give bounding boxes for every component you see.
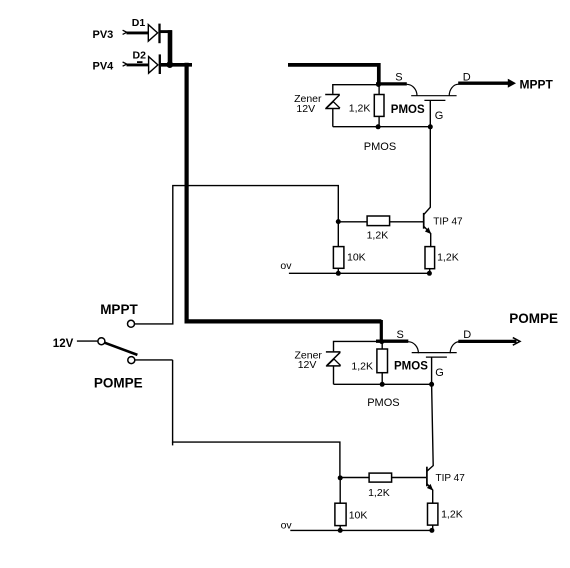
svg-text:1,2K: 1,2K <box>351 361 373 373</box>
svg-text:MPPT: MPPT <box>100 302 138 317</box>
svg-text:PMOS: PMOS <box>367 397 399 409</box>
svg-text:S: S <box>395 71 402 83</box>
svg-text:D: D <box>463 72 471 84</box>
svg-text:PMOS: PMOS <box>394 361 428 373</box>
svg-text:10K: 10K <box>349 510 368 522</box>
svg-text:PV4: PV4 <box>93 61 115 73</box>
svg-text:1,2K: 1,2K <box>437 252 459 264</box>
svg-text:POMPE: POMPE <box>509 311 558 326</box>
svg-text:12V: 12V <box>296 103 315 115</box>
svg-text:1,2K: 1,2K <box>441 508 463 520</box>
svg-text:G: G <box>435 367 444 379</box>
svg-text:D: D <box>463 329 471 341</box>
svg-text:TIP 47: TIP 47 <box>433 216 463 227</box>
svg-text:ov: ov <box>281 520 293 532</box>
svg-text:POMPE: POMPE <box>94 375 143 390</box>
svg-text:10K: 10K <box>347 251 366 263</box>
svg-text:ov: ov <box>280 260 292 272</box>
svg-text:D2: D2 <box>133 49 147 61</box>
svg-text:PMOS: PMOS <box>364 141 396 153</box>
svg-text:G: G <box>435 110 444 122</box>
svg-text:1,2K: 1,2K <box>367 229 389 241</box>
svg-text:12V: 12V <box>298 359 317 371</box>
svg-text:D1: D1 <box>132 17 146 29</box>
svg-text:12V: 12V <box>53 338 74 350</box>
svg-text:1,2K: 1,2K <box>349 103 371 115</box>
svg-text:S: S <box>397 329 404 341</box>
svg-text:PMOS: PMOS <box>391 104 425 116</box>
svg-text:TIP 47: TIP 47 <box>436 473 466 484</box>
svg-text:MPPT: MPPT <box>520 78 554 92</box>
svg-text:1,2K: 1,2K <box>368 487 390 499</box>
svg-text:PV3: PV3 <box>93 29 114 41</box>
